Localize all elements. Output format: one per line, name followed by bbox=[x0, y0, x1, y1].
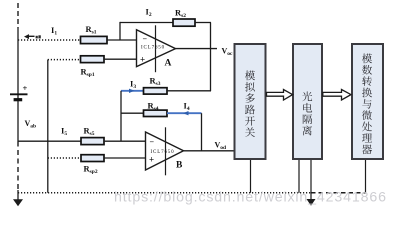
resistor Rs5 bbox=[81, 138, 104, 145]
svg-text:ICL7650: ICL7650 bbox=[151, 150, 175, 155]
wire A output bbox=[176, 48, 218, 50]
wire Rs4 left bbox=[121, 112, 144, 114]
wire left rail dashed top bbox=[17, 3, 19, 28]
wire B output bbox=[184, 150, 235, 152]
wire dotted Rsp1 bbox=[48, 59, 81, 61]
wire block2 ground arrow bbox=[310, 160, 312, 200]
wire vertical node B- bbox=[120, 91, 122, 141]
svg-text:+: + bbox=[140, 55, 145, 65]
svg-text:B: B bbox=[176, 161, 183, 171]
svg-text:ICL7650: ICL7650 bbox=[141, 45, 165, 50]
resistor Rsp2 bbox=[81, 155, 104, 162]
wire Rs5 to B- bbox=[104, 140, 146, 142]
wire Rsp1 to A+ bbox=[104, 58, 137, 60]
wire blue Rs3 left bbox=[121, 90, 144, 92]
resistor Rs1 bbox=[81, 36, 108, 43]
wire Rs3 right bbox=[167, 90, 211, 92]
wire block3 ground bbox=[365, 160, 367, 193]
wire vertical feedback/out/Rs3 bbox=[210, 23, 212, 92]
wire Rs1 to A- bbox=[107, 39, 137, 41]
wire junction up to feedback bbox=[119, 22, 121, 40]
hollow arrow block1 to block2 bbox=[267, 90, 293, 101]
wire B- row left bbox=[18, 140, 81, 142]
svg-text:A: A bbox=[165, 59, 172, 69]
wire dotted top y40 bbox=[18, 39, 81, 41]
resistor Rs4 bbox=[144, 110, 168, 116]
svg-text:+: + bbox=[149, 155, 154, 165]
svg-text:−: − bbox=[150, 138, 155, 147]
wire left rail solid bbox=[17, 28, 19, 142]
block analog multiplexer bbox=[235, 44, 266, 159]
resistor Rs2 bbox=[173, 19, 195, 26]
op-amp A ICL7650 bbox=[137, 25, 176, 72]
block ADC and microprocessor bbox=[352, 44, 383, 159]
wire block2 ground left bbox=[298, 160, 300, 193]
wire left rail dashed bottom bbox=[17, 142, 19, 191]
wire blue Rs4 right bbox=[167, 112, 202, 114]
svg-text:https://blog.csdn.net/weixin_4: https://blog.csdn.net/weixin_42341866 bbox=[114, 190, 387, 206]
resistor Rs3 bbox=[144, 88, 168, 94]
wire ground rail dashed right bbox=[311, 192, 366, 194]
wire feedback top bbox=[120, 22, 173, 24]
wire vertical node b bbox=[47, 60, 49, 193]
block label text multiplexer bbox=[245, 71, 255, 137]
ground arrow bottom left bbox=[17, 190, 19, 200]
wire dotted Rsp2 bbox=[48, 157, 81, 159]
node arrow top-left with tiny label bbox=[24, 34, 29, 39]
wire Rsp2 to B+ bbox=[104, 157, 146, 159]
wire block1 ground bbox=[250, 160, 252, 193]
resistor Rsp1 bbox=[81, 56, 105, 63]
svg-text:−: − bbox=[143, 35, 148, 44]
op-amp B ICL7650 bbox=[146, 127, 184, 175]
block label text isolation bbox=[302, 92, 312, 136]
hollow arrow block2 to block3 bbox=[323, 90, 351, 101]
block label text adc-mcu bbox=[362, 54, 372, 155]
wire ground rail dotted bbox=[18, 192, 311, 194]
wire vertical to B output bbox=[201, 113, 203, 151]
battery plates bbox=[10, 93, 28, 95]
block optocoupler isolation bbox=[293, 44, 322, 159]
wire Rs2 right bbox=[195, 22, 211, 24]
svg-text:+: + bbox=[23, 83, 28, 93]
